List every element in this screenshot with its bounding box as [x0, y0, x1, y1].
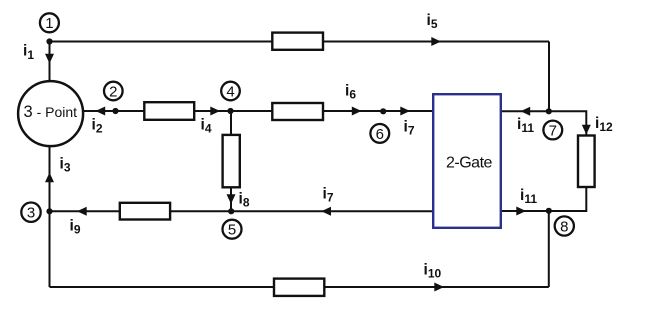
wire node4 down through resistor to node5 [230, 111, 232, 211]
arrow i3 up [45, 173, 54, 183]
node 5 [223, 220, 242, 239]
wire bottom branch [50, 286, 549, 288]
svg-text:3: 3 [27, 205, 35, 222]
svg-text:8: 8 [560, 218, 568, 235]
resistor vertical between node4 and node5 [223, 135, 240, 187]
arrow i11 left (row2) [521, 107, 531, 116]
arrow i12 down [582, 125, 591, 135]
arrow i10 right [434, 283, 444, 292]
node 6 [370, 124, 389, 143]
resistor row3 between node3 and node5 [120, 203, 170, 220]
wire left vertical: 3-Point circle bottom through node3 to bottom branch [49, 140, 51, 287]
arrow i6 right [352, 107, 362, 116]
arrow i7 left (row3) [321, 207, 331, 216]
svg-text:i12: i12 [595, 115, 613, 134]
wire right vertical top corner down to node7 [548, 42, 550, 112]
wire node8 down to bottom branch [548, 211, 550, 287]
svg-text:i11: i11 [517, 116, 534, 135]
node 4 [221, 82, 240, 101]
resistor top branch [272, 33, 323, 50]
svg-text:i7: i7 [404, 119, 415, 138]
svg-text:1: 1 [45, 15, 53, 32]
svg-text:i5: i5 [427, 12, 438, 31]
svg-text:i8: i8 [239, 191, 250, 210]
svg-text:6: 6 [376, 126, 384, 143]
svg-text:2-Gate: 2-Gate [446, 155, 493, 172]
arrow i2 left [96, 107, 106, 116]
svg-text:i3: i3 [60, 156, 71, 175]
arrow i4 right [210, 107, 220, 116]
svg-text:i1: i1 [23, 43, 34, 62]
junction at node 5 [228, 208, 234, 214]
node 2 [104, 82, 123, 101]
resistor bottom branch [274, 279, 324, 296]
svg-text:i6: i6 [345, 83, 356, 102]
svg-text:i10: i10 [424, 262, 442, 281]
junction at node 6 [380, 108, 386, 114]
svg-text:i9: i9 [70, 218, 81, 237]
wire top branch node1 to top-right corner [50, 41, 550, 43]
arrow i5 right [431, 37, 441, 46]
resistor vertical right branch i12 [578, 136, 595, 188]
svg-text:2: 2 [109, 83, 117, 100]
svg-text:7: 7 [549, 122, 557, 139]
wire 2-Gate right row3 to node8 [501, 210, 549, 212]
wire node1 down to 3-Point circle [49, 42, 51, 91]
wire 2-Gate right to node7 and i12 branch down to node8 [501, 111, 586, 211]
svg-text:i4: i4 [201, 117, 212, 136]
svg-text:i7: i7 [323, 186, 334, 205]
junction at node 2 [112, 108, 118, 114]
svg-text:i11: i11 [520, 187, 537, 206]
svg-text:3 - Point: 3 - Point [24, 103, 78, 121]
wire row2: 3-Point circle to 2-Gate left (nodes 2,4,6) [83, 110, 433, 112]
arrow i11 right (row3) [516, 207, 526, 216]
arrow i8 down [227, 194, 236, 204]
resistor between node2 and node4 [144, 102, 194, 120]
3-Point node circle [18, 81, 83, 146]
junction at node 4 [227, 108, 233, 114]
junction at node 8 [546, 208, 552, 214]
arrow i1 down [45, 54, 54, 64]
resistor between node4 and node6 [272, 103, 323, 120]
wire row3: node3 to 2-Gate left (node 5) [50, 210, 434, 212]
junction at node 1 [46, 38, 52, 44]
node 7 [543, 121, 562, 140]
svg-text:4: 4 [226, 83, 234, 100]
node 1 [40, 13, 59, 32]
node 3 [21, 203, 40, 222]
op-amp 2-Gate box U1 [433, 94, 501, 228]
junction at node 3 [46, 208, 52, 214]
node 8 [555, 216, 574, 235]
svg-text:i2: i2 [92, 117, 103, 136]
svg-text:5: 5 [228, 222, 236, 239]
arrow i7 right (row2) [400, 107, 410, 116]
junction at node 7 [546, 108, 552, 114]
arrow i9 left [77, 207, 87, 216]
